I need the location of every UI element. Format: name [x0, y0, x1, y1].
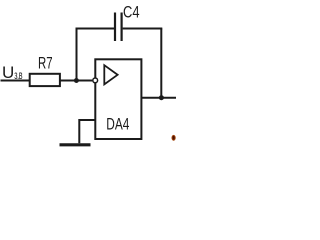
- wire feedback right vertical: [160, 29, 162, 98]
- svg-text:DA4: DA4: [106, 116, 129, 134]
- op-amp triangle symbol: [104, 65, 117, 84]
- node B output junction dot: [159, 95, 164, 100]
- wire feedback left vertical: [76, 29, 78, 81]
- red marker dot: [172, 135, 175, 140]
- resistor R7: [30, 74, 60, 86]
- node Uз.в input label: [2, 63, 22, 83]
- svg-text:U: U: [2, 63, 14, 82]
- svg-text:C4: C4: [123, 3, 139, 22]
- wire resistor to op-amp inverting input: [60, 80, 92, 82]
- ground: [60, 143, 91, 146]
- svg-text:R7: R7: [38, 55, 53, 74]
- wire output: [141, 97, 176, 99]
- op-amp inverting input bubble: [93, 78, 98, 83]
- op-amp U1 body DA4: [95, 59, 141, 139]
- capacitor C4: [115, 13, 122, 42]
- wire feedback top right segment: [123, 28, 163, 30]
- wire non-inverting input pin: [79, 120, 95, 143]
- wire feedback top left segment: [76, 28, 115, 30]
- node A junction dot (feedback tap): [74, 78, 79, 83]
- wire input to resistor R7: [1, 80, 30, 82]
